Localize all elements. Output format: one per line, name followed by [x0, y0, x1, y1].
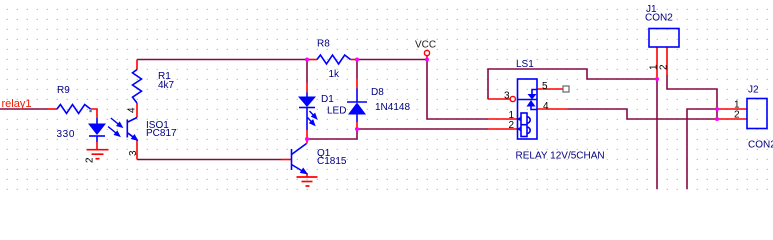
svg-text:2: 2 [85, 157, 96, 163]
svg-text:1k: 1k [329, 69, 341, 80]
svg-text:CON2: CON2 [748, 140, 773, 151]
svg-text:J2: J2 [748, 85, 759, 96]
svg-text:LED: LED [327, 106, 346, 117]
svg-text:relay1: relay1 [2, 98, 32, 110]
svg-text:1N4148: 1N4148 [375, 102, 410, 113]
svg-text:R8: R8 [317, 39, 330, 50]
svg-text:4k7: 4k7 [158, 80, 175, 91]
svg-text:R9: R9 [57, 85, 70, 96]
svg-text:D8: D8 [371, 87, 384, 98]
svg-text:330: 330 [57, 129, 76, 140]
svg-text:3: 3 [504, 91, 510, 102]
svg-text:C1815: C1815 [317, 156, 347, 167]
svg-text:5: 5 [542, 81, 548, 92]
svg-text:3: 3 [128, 150, 139, 156]
svg-text:2: 2 [509, 120, 515, 131]
svg-text:2: 2 [734, 110, 740, 121]
svg-text:PC817: PC817 [146, 128, 177, 139]
svg-text:4: 4 [543, 101, 549, 112]
svg-text:LS1: LS1 [516, 59, 534, 70]
svg-text:2: 2 [659, 64, 670, 70]
svg-text:RELAY 12V/5CHAN: RELAY 12V/5CHAN [516, 151, 605, 162]
svg-text:CON2: CON2 [645, 13, 673, 24]
svg-text:VCC: VCC [415, 40, 436, 51]
svg-text:4: 4 [127, 107, 138, 113]
svg-text:D1: D1 [321, 94, 334, 105]
